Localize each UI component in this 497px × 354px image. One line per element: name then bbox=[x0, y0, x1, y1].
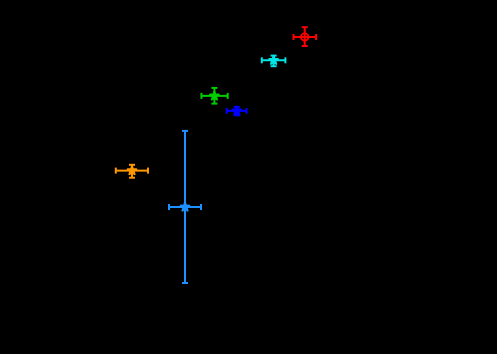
data point P5 orange: error bars + marker bbox=[116, 165, 148, 178]
data point P6 dodgerblue: error bars + marker bbox=[169, 131, 201, 283]
data point P1 red: error bars + marker bbox=[294, 27, 317, 46]
data point P2 cyan: error bars + marker bbox=[262, 56, 286, 67]
data point P3 green: error bars + marker bbox=[201, 88, 227, 104]
data point P4 blue: error bars + marker bbox=[227, 106, 247, 115]
